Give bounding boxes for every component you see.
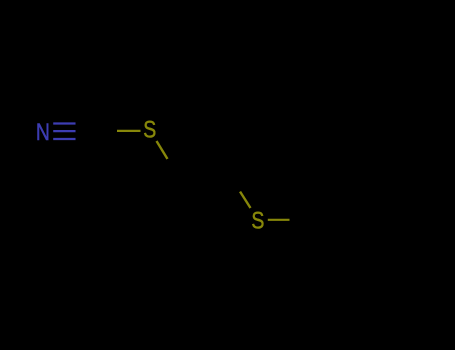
bond CH2a-CH2b (carbon-carbon, black-on-black) bbox=[178, 174, 231, 176]
svg-text:N: N bbox=[36, 119, 50, 146]
benzene ring (carbon, black-on-black) bbox=[311, 174, 418, 267]
svg-text:S: S bbox=[251, 208, 264, 235]
bond S1-CH2a (carbon half, black-on-black) bbox=[168, 159, 178, 176]
bond C-S1 (carbon half, black-on-black) bbox=[96, 130, 117, 132]
bond CH2-S2 (sulfur half, olive diagonal) bbox=[240, 192, 251, 209]
bond CH2b-S2 (carbon half, black-on-black) bbox=[230, 174, 240, 191]
bond S1-CH2 (sulfur half, olive diagonal) bbox=[157, 141, 168, 159]
bond S2-phenyl C1 (carbon half, black-on-black) bbox=[290, 219, 312, 221]
triple bond N#C (carbon half, black-on-black) bbox=[76, 124, 97, 140]
bond C-S1 (sulfur half, olive horizontal) bbox=[117, 130, 141, 132]
triple bond N#C (blue half, three parallel lines) bbox=[53, 124, 75, 140]
bond S2-phenyl C1 (sulfur half, olive horizontal) bbox=[268, 219, 290, 221]
svg-text:S: S bbox=[143, 117, 156, 144]
